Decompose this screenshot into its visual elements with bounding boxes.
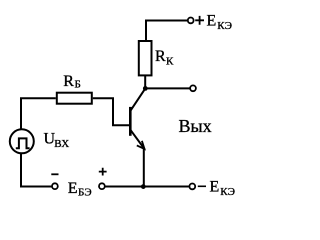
resistor RK xyxy=(139,41,152,75)
svg-text:R: R xyxy=(63,73,74,90)
transistor collector lead xyxy=(130,88,145,111)
node emitter junction xyxy=(141,184,146,189)
transistor emitter lead with arrow xyxy=(130,130,144,149)
svg-text:Б: Б xyxy=(75,79,81,91)
svg-text:КЭ: КЭ xyxy=(217,20,232,32)
svg-text:Е: Е xyxy=(68,180,78,197)
label Uvx xyxy=(44,131,70,150)
svg-text:R: R xyxy=(155,48,166,65)
svg-text:БЭ: БЭ xyxy=(78,186,92,198)
wire top from Rk to +Eke terminal xyxy=(146,21,187,22)
wire from top corner down to Rk xyxy=(145,20,147,41)
svg-text:Е: Е xyxy=(207,13,217,30)
label +Eke xyxy=(195,13,232,33)
wire RB right to base xyxy=(93,98,129,125)
wire lower rail from plus terminal to -Eke terminal xyxy=(105,186,189,188)
terminal output (middle right) xyxy=(190,85,196,91)
svg-text:КЭ: КЭ xyxy=(220,186,235,198)
terminal -Eke (bottom right) xyxy=(189,184,195,190)
svg-text:ВХ: ВХ xyxy=(54,138,69,150)
wire source bottom to lower rail xyxy=(21,154,52,187)
svg-text:Е: Е xyxy=(210,179,220,196)
node collector junction xyxy=(143,86,148,91)
label RK xyxy=(155,48,174,68)
label RB xyxy=(63,73,81,90)
wire collector node to output terminal xyxy=(145,87,190,89)
label -Eke xyxy=(198,179,235,199)
label plus (above terminal) xyxy=(99,168,107,176)
source Uin (pulse generator) xyxy=(10,129,34,153)
terminal +Eke (top right) xyxy=(188,18,194,24)
label minus (above terminal) xyxy=(51,173,58,175)
terminal minus of Ebe xyxy=(52,183,58,189)
label Ebe xyxy=(68,180,92,198)
wire emitter down to lower rail xyxy=(143,149,145,187)
terminal plus of Ebe xyxy=(99,183,105,189)
wire RB left to source xyxy=(21,98,56,128)
resistor RB xyxy=(57,93,92,104)
transistor VT base bar xyxy=(129,107,132,136)
svg-text:Вых: Вых xyxy=(179,116,212,136)
wire Rk bottom to collector node xyxy=(144,76,146,88)
svg-text:К: К xyxy=(166,56,174,68)
pulse symbol inside source xyxy=(16,138,30,148)
